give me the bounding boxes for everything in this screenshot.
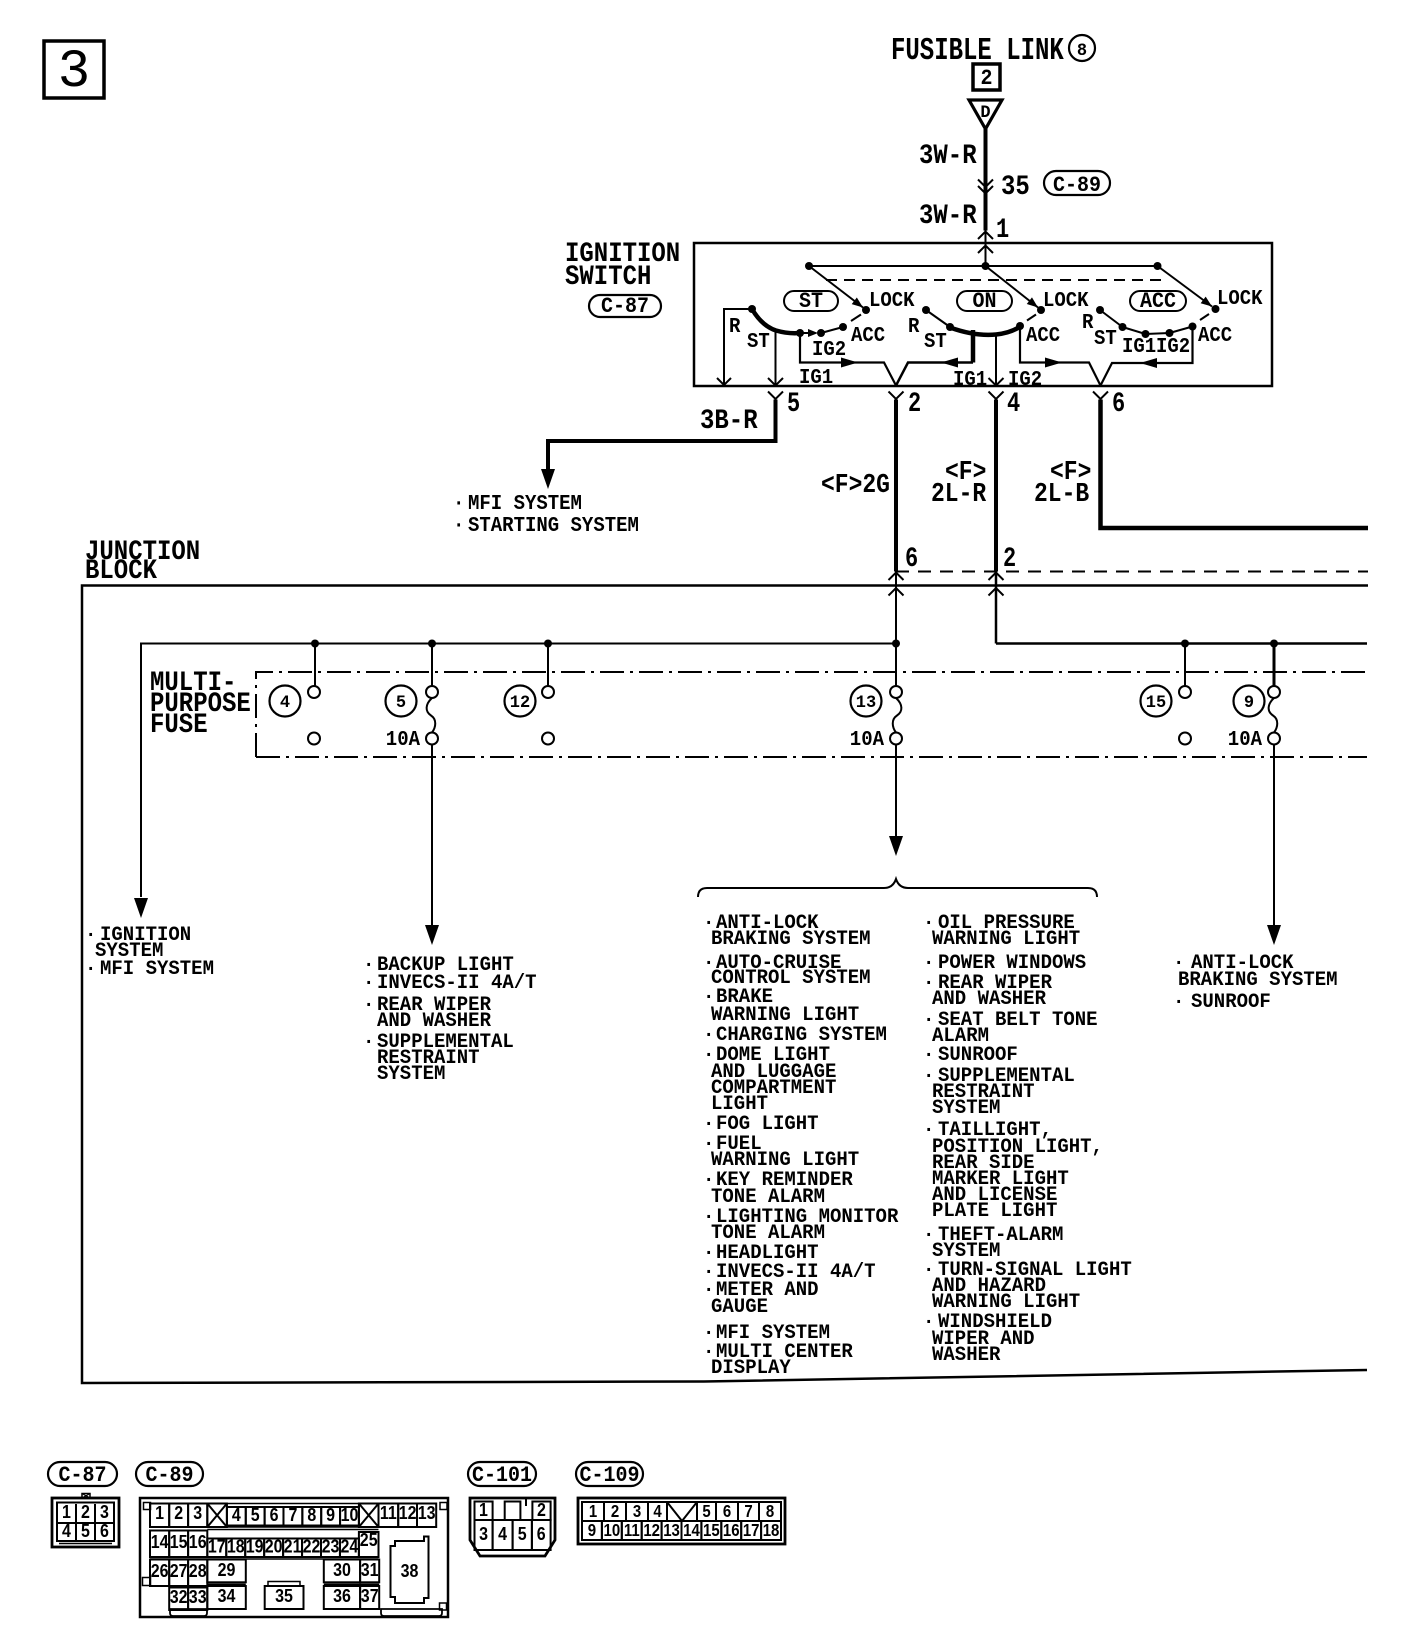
multi-purpose fuse strip dash-dot box [256,672,1367,757]
wire 2G junction block entry [895,572,897,687]
wire fuse 13 output [895,744,897,838]
svg-text:3: 3 [479,1523,488,1544]
svg-text:ST: ST [799,289,823,314]
svg-text:<F>2G: <F>2G [821,471,890,501]
connector tag C-89 (bottom) [136,1462,203,1488]
wire 2G from pin 2 [894,400,898,572]
connector C-87 pin view [52,1494,119,1548]
ST wafer wiper arc (R-ST bridged) [752,309,800,333]
connector C-101 pin view [470,1498,555,1556]
svg-text:4: 4 [62,1520,71,1541]
svg-text:4: 4 [232,1504,241,1525]
svg-text:6: 6 [537,1523,546,1544]
svg-text:SYSTEM: SYSTEM [377,1062,445,1085]
svg-text:ST: ST [1094,327,1117,351]
svg-text:·: · [453,492,464,516]
svg-text:18: 18 [227,1535,245,1556]
svg-text:29: 29 [218,1559,236,1580]
wire 2L-R from pin 4 [994,400,998,572]
wire 2L-R junction block entry [995,572,998,644]
svg-text:FUSE: FUSE [150,709,208,741]
svg-text:ST: ST [924,330,947,354]
svg-text:D: D [980,103,990,123]
svg-text:4: 4 [498,1523,507,1544]
svg-text:7: 7 [744,1502,752,1521]
ON wafer wiper feed stub to pin 2 [971,330,976,363]
svg-text:3B-R: 3B-R [700,405,758,437]
svg-text:AND WASHER: AND WASHER [377,1009,491,1032]
svg-text:MFI SYSTEM: MFI SYSTEM [468,492,582,516]
svg-text:3: 3 [193,1502,202,1523]
svg-text:11: 11 [624,1521,640,1540]
fuse 4 [270,686,321,745]
connector tag C-87 (bottom) [48,1462,117,1488]
svg-text:LOCK: LOCK [869,289,915,313]
svg-text:1: 1 [996,215,1009,246]
svg-text:20: 20 [265,1535,283,1556]
svg-text:33: 33 [189,1586,207,1607]
svg-text:·: · [453,514,464,538]
svg-text:PLATE LIGHT: PLATE LIGHT [932,1199,1057,1222]
svg-text:1: 1 [155,1502,164,1523]
svg-text:·: · [1173,990,1184,1013]
svg-text:·: · [923,1043,934,1066]
pin 6 exit crossing [1093,392,1108,400]
ON wafer R and ST contacts [922,306,930,314]
svg-text:25: 25 [360,1529,378,1550]
svg-text:12: 12 [510,693,530,713]
svg-text:8: 8 [307,1504,316,1525]
connector C-89 pin 35 crossing chevrons [978,180,993,188]
connector tag C-109 [576,1462,643,1488]
ignition switch box [694,243,1272,386]
svg-text:35: 35 [1001,171,1030,203]
svg-text:2: 2 [537,1499,546,1520]
svg-text:5: 5 [518,1523,527,1544]
ON wafer wiper arc (ST-IG1-ACC) [950,326,1021,335]
svg-text:36: 36 [333,1585,351,1606]
ST wafer feed diagonal to LOCK [809,266,863,308]
svg-text:ACC: ACC [851,324,885,348]
svg-text:·: · [363,993,374,1016]
svg-text:6: 6 [723,1502,731,1521]
page number box 3 [44,41,104,103]
pin 5 wire from wiper [775,330,777,385]
svg-text:12: 12 [643,1521,660,1540]
connector tag C-87 [589,294,661,319]
svg-text:LOCK: LOCK [1217,287,1263,311]
svg-text:18: 18 [763,1521,780,1540]
svg-text:15: 15 [703,1521,720,1540]
svg-text:LOCK: LOCK [1043,289,1089,313]
svg-text:BLOCK: BLOCK [85,555,157,587]
svg-text:2: 2 [174,1502,183,1523]
svg-text:4: 4 [280,693,290,713]
svg-text:34: 34 [218,1585,236,1606]
svg-text:ACC: ACC [1140,289,1176,314]
svg-text:3W-R: 3W-R [919,140,977,172]
fuse 5 [386,686,439,753]
connector C-109 pin view [578,1498,785,1544]
ST wafer stadium label [784,289,838,314]
svg-text:5: 5 [251,1504,260,1525]
svg-text:R: R [1082,311,1094,335]
svg-text:6: 6 [905,544,918,575]
wire fuse 9 output [1273,744,1275,927]
svg-text:31: 31 [361,1559,379,1580]
svg-text:ON: ON [973,289,997,314]
svg-text:32: 32 [170,1586,188,1607]
svg-text:16: 16 [189,1531,207,1552]
svg-text:·: · [363,1030,374,1053]
fusible link number box 2 [973,64,1000,91]
svg-text:17: 17 [208,1535,226,1556]
junction block border [82,586,1368,1384]
svg-text:SUNROOF: SUNROOF [938,1043,1018,1066]
fuse 13 [850,686,902,753]
svg-text:WASHER: WASHER [932,1343,1001,1366]
bus wire inside switch [809,265,1158,267]
svg-text:WARNING LIGHT: WARNING LIGHT [932,927,1080,950]
svg-text:5: 5 [702,1502,710,1521]
junction block dashed top continuation [896,571,1368,573]
pin 5 exit crossing [768,378,783,386]
svg-text:C-89: C-89 [146,1463,194,1488]
svg-text:IG1: IG1 [799,366,833,390]
svg-text:4: 4 [653,1502,661,1521]
brace over fuse 13 list [698,879,1097,897]
fusible link symbol D (triangle) [969,100,1002,129]
svg-text:6: 6 [100,1520,109,1541]
svg-text:16: 16 [723,1521,740,1540]
svg-text:30: 30 [333,1559,351,1580]
svg-text:1: 1 [479,1499,488,1520]
svg-text:8: 8 [766,1502,774,1521]
ACC wafer stadium label [1130,289,1186,314]
svg-text:2L-B: 2L-B [1034,480,1089,510]
svg-text:ST: ST [747,330,770,354]
svg-text:ACC: ACC [1026,324,1060,348]
ACC wafer feed diagonal to LOCK [1158,266,1213,307]
svg-text:11: 11 [380,1502,397,1523]
svg-text:13: 13 [856,693,876,713]
connector C-89 pin view [140,1498,448,1617]
svg-text:2: 2 [908,389,921,420]
svg-text:14: 14 [151,1531,169,1552]
fuse 15 [1141,686,1192,745]
svg-text:·: · [85,957,96,980]
svg-text:IG2: IG2 [1156,335,1190,359]
svg-text:22: 22 [303,1535,321,1556]
svg-text:2: 2 [1003,544,1016,575]
ST wafer contacts IG2 ACC [796,329,804,337]
svg-text:2L-R: 2L-R [931,480,986,510]
svg-text:5: 5 [396,693,406,713]
svg-text:2: 2 [611,1502,619,1521]
connector tag C-89 [1044,171,1110,198]
svg-text:R: R [729,315,741,339]
svg-text:R: R [908,315,920,339]
svg-text:9: 9 [326,1504,335,1525]
pin 2 exit crossing [896,363,973,386]
svg-text:6: 6 [270,1504,279,1525]
svg-text:BRAKING SYSTEM: BRAKING SYSTEM [1178,968,1338,991]
svg-text:1: 1 [589,1502,597,1521]
wire 3W-R main feed [984,129,988,231]
svg-text:28: 28 [189,1560,207,1581]
svg-text:3: 3 [58,42,90,103]
ST wafer R contact and wire [748,305,756,313]
wire 2L-B from pin 6 [1101,400,1369,529]
svg-text:19: 19 [246,1535,264,1556]
svg-text:C-101: C-101 [472,1463,532,1488]
svg-text:4: 4 [1007,389,1020,420]
svg-text:3W-R: 3W-R [919,200,977,232]
svg-text:DISPLAY: DISPLAY [711,1356,791,1379]
svg-text:·: · [363,971,374,994]
svg-text:C-109: C-109 [580,1463,640,1488]
svg-text:10: 10 [341,1504,359,1525]
label FUSIBLE LINK [891,34,1064,69]
svg-text:13: 13 [418,1502,436,1523]
svg-text:MFI SYSTEM: MFI SYSTEM [100,957,214,980]
svg-text:INVECS-II 4A/T: INVECS-II 4A/T [377,971,537,994]
svg-text:5: 5 [787,389,800,420]
svg-text:21: 21 [284,1535,302,1556]
svg-text:IG1: IG1 [953,368,987,392]
svg-text:27: 27 [170,1560,188,1581]
svg-text:14: 14 [683,1521,700,1540]
svg-text:24: 24 [341,1535,359,1556]
dashed rotor line [826,279,1163,281]
svg-text:C-87: C-87 [59,1463,107,1488]
svg-text:6: 6 [1112,389,1125,420]
svg-text:SWITCH: SWITCH [565,261,651,293]
fuse bus wire left [141,644,896,898]
svg-text:AND WASHER: AND WASHER [932,987,1046,1010]
svg-text:9: 9 [1244,693,1254,713]
svg-text:3: 3 [633,1502,641,1521]
svg-text:26: 26 [151,1560,169,1581]
svg-text:12: 12 [399,1502,417,1523]
pin 1 entry chevrons [985,231,987,266]
fuse 12 [505,686,555,745]
ON wafer feed diagonal to LOCK [986,266,1039,308]
svg-text:C-87: C-87 [601,294,649,319]
svg-text:15: 15 [170,1531,188,1552]
svg-text:35: 35 [275,1585,293,1606]
ON wafer IG1 wire to pin 4 [995,335,997,386]
ACC wafer wire to pin 6 [1101,327,1193,386]
wire fuse 5 output [431,744,433,927]
svg-text:13: 13 [663,1521,680,1540]
svg-text:10A: 10A [386,728,421,752]
svg-text:10A: 10A [850,728,885,752]
pin 4 exit crossing [989,378,1004,386]
ACC wafer contacts R ST IG1 IG2 ACC [1096,306,1104,314]
svg-text:17: 17 [743,1521,760,1540]
svg-text:2: 2 [981,66,993,91]
svg-text:5: 5 [81,1520,90,1541]
svg-text:STARTING SYSTEM: STARTING SYSTEM [468,514,639,538]
ON wafer ACC wire to pin 6 [1020,326,1101,386]
ST wafer IG1 wire to pin 2 [800,333,896,386]
svg-text:15: 15 [1146,693,1166,713]
connector tag C-101 [468,1462,536,1488]
fuse bus wire right (2L-R) [996,642,1367,645]
svg-text:9: 9 [588,1521,596,1540]
svg-text:10A: 10A [1228,728,1263,752]
svg-text:37: 37 [361,1585,379,1606]
ON wafer stadium label [957,289,1012,314]
wire 3B-R pin5 to MFI/starting [548,400,776,471]
fuse 9 [1228,686,1280,753]
svg-text:7: 7 [288,1504,297,1525]
svg-text:10: 10 [604,1521,621,1540]
circled 8 [1069,35,1095,61]
svg-text:IG1: IG1 [1122,335,1156,359]
svg-text:8: 8 [1077,41,1087,61]
svg-text:BRAKING SYSTEM: BRAKING SYSTEM [711,927,871,950]
svg-text:38: 38 [401,1560,419,1581]
svg-text:SYSTEM: SYSTEM [932,1096,1000,1119]
svg-text:GAUGE: GAUGE [711,1295,768,1318]
svg-text:C-89: C-89 [1053,173,1101,198]
svg-text:23: 23 [322,1535,340,1556]
svg-text:SUNROOF: SUNROOF [1191,990,1271,1013]
svg-text:ACC: ACC [1198,324,1232,348]
